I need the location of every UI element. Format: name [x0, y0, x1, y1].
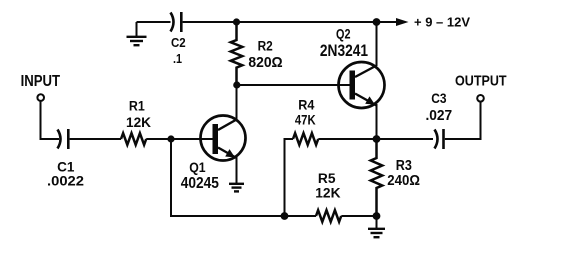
resistor R3: [371, 139, 421, 216]
svg-text:INPUT: INPUT: [21, 73, 61, 90]
wire R5 to bottom node: [341, 215, 376, 217]
wire Q1 collector up to node: [236, 85, 238, 120]
wire C1 to R1: [70, 138, 121, 140]
svg-text:R2: R2: [258, 39, 273, 54]
node top rail Q2 collector: [373, 18, 381, 26]
wire ground to C2: [137, 21, 171, 23]
wire Q2 collector to top rail: [376, 22, 378, 66]
svg-text:R3: R3: [396, 158, 412, 174]
svg-text:+ 9 – 12V: + 9 – 12V: [414, 15, 471, 29]
ground Q1 emitter: [229, 184, 244, 192]
output terminal OUTPUT: [455, 73, 507, 102]
svg-text:OUTPUT: OUTPUT: [455, 73, 507, 90]
node A (Q1 base junction): [167, 135, 174, 142]
resistor R2: [231, 22, 283, 85]
svg-text:R1: R1: [129, 99, 145, 114]
resistor R4: [293, 97, 318, 145]
svg-text:Q1: Q1: [189, 159, 206, 175]
node top rail R2: [233, 18, 240, 25]
svg-text:820Ω: 820Ω: [248, 54, 282, 71]
svg-text:Q2: Q2: [336, 26, 351, 41]
svg-text:2N3241: 2N3241: [320, 42, 368, 60]
svg-text:40245: 40245: [181, 175, 220, 192]
supply arrow +9-12V: [396, 15, 471, 29]
node R2 bottom / Q2 base: [233, 81, 240, 88]
ground C2: [127, 22, 147, 45]
capacitor C2: [171, 12, 186, 66]
wire node to Q2 base: [237, 84, 350, 86]
svg-text:12K: 12K: [315, 185, 340, 201]
resistor R5: [315, 171, 341, 222]
wire middle node to C3: [377, 138, 434, 140]
svg-text:R4: R4: [298, 97, 314, 113]
wire C3 to output: [445, 103, 481, 140]
wire R4 to middle node: [318, 138, 376, 140]
svg-text:240Ω: 240Ω: [387, 173, 420, 189]
svg-text:C3: C3: [431, 90, 446, 106]
transistor Q1: [181, 116, 246, 193]
svg-text:.027: .027: [426, 108, 453, 124]
ground bottom: [368, 216, 385, 237]
input terminal INPUT: [21, 73, 61, 101]
capacitor C3: [426, 90, 453, 149]
wire R4 left leg: [285, 139, 294, 216]
wire R1 to node A: [146, 138, 213, 140]
node bottom right: [373, 212, 381, 220]
svg-text:47K: 47K: [295, 111, 316, 127]
capacitor C1: [47, 129, 84, 189]
node middle (emitter/R4/R3/C3): [373, 135, 381, 143]
resistor R1: [121, 99, 151, 145]
wire Q1 emitter: [236, 156, 238, 183]
svg-text:.1: .1: [173, 51, 182, 66]
wire bottom rail to R5: [285, 215, 317, 217]
wire C2 to supply arrow (top rail): [183, 21, 398, 23]
wire input drop: [41, 101, 60, 139]
wire left drop from node A: [171, 139, 285, 216]
node bottom left (R4 leg): [281, 212, 289, 220]
svg-text:C2: C2: [171, 35, 186, 50]
transistor Q2: [320, 26, 385, 108]
svg-text:.0022: .0022: [47, 173, 84, 189]
svg-text:12K: 12K: [126, 115, 151, 130]
wire Q2 emitter to middle node: [376, 104, 378, 139]
